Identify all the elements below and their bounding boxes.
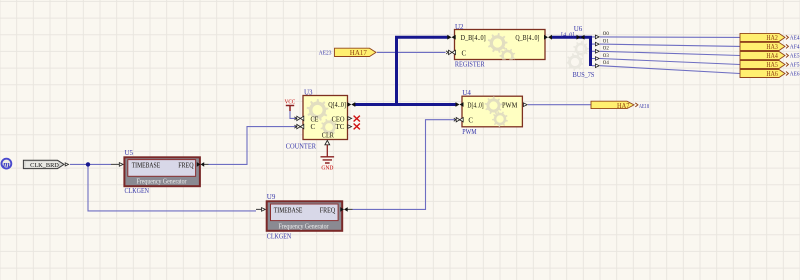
- pin U2 D_B input: [447, 35, 455, 40]
- no-ERC mark on TC: [354, 124, 360, 130]
- svg-text:VCC: VCC: [285, 99, 296, 106]
- svg-text:O1: O1: [603, 38, 609, 44]
- bus U2 Q_B to BUS_7S: [551, 37, 591, 66]
- component U4 PWM: [462, 96, 522, 127]
- junction node: [86, 162, 90, 166]
- svg-text:CLKGEN: CLKGEN: [125, 187, 150, 195]
- pin U9 FREQ output: [347, 208, 353, 210]
- component U6 BUS_7S bus ripper: [573, 41, 589, 57]
- svg-text:U9: U9: [267, 193, 276, 201]
- svg-text:U6: U6: [574, 25, 583, 33]
- pin O3 arrow: [595, 57, 599, 61]
- probe marker (blue circle): [2, 159, 12, 169]
- power port VCC: [285, 99, 296, 111]
- svg-text:TIMEBASE: TIMEBASE: [132, 162, 161, 170]
- svg-text:CLK_BRD: CLK_BRD: [30, 162, 59, 169]
- svg-text:AF4: AF4: [790, 45, 800, 51]
- svg-text:AF5: AF5: [790, 63, 800, 69]
- svg-text:HA5: HA5: [766, 61, 778, 69]
- pin U9 input stub: [256, 208, 262, 210]
- port HA17: [335, 48, 377, 56]
- svg-text:FREQ: FREQ: [178, 162, 193, 170]
- svg-text:HA6: HA6: [766, 70, 778, 78]
- svg-text:U4: U4: [462, 89, 471, 97]
- pin HA7 tail arrow: [635, 103, 638, 107]
- svg-text:Q_B[4..0]: Q_B[4..0]: [515, 34, 539, 42]
- pin U3 CE: [297, 116, 304, 120]
- svg-text:GND: GND: [321, 165, 333, 172]
- svg-text:O4: O4: [603, 60, 609, 66]
- pin O0 arrow: [595, 35, 599, 39]
- svg-text:C: C: [462, 50, 467, 58]
- svg-text:HA7: HA7: [617, 102, 630, 110]
- svg-text:U3: U3: [304, 88, 313, 96]
- wire U5 FREQ to U3 C: [209, 127, 297, 165]
- svg-text:AE23: AE23: [319, 51, 332, 57]
- wire CLK_BRD to U5 input: [70, 163, 111, 165]
- svg-text:Frequency Generator: Frequency Generator: [137, 177, 187, 185]
- port CLK_BRD: [23, 160, 64, 169]
- pin U3 Q output: [347, 102, 355, 107]
- wire O4 to port HA6: [592, 66, 740, 74]
- pin O2 arrow: [595, 50, 599, 54]
- pin HA6 tail arrow: [786, 72, 788, 76]
- pin O1 arrow: [595, 42, 599, 46]
- svg-text:AE5: AE5: [790, 54, 800, 60]
- svg-text:AE4: AE4: [790, 36, 800, 42]
- svg-text:U5: U5: [125, 149, 134, 157]
- pin U5 input stub: [111, 163, 119, 165]
- pin O4 arrow: [595, 64, 599, 68]
- svg-text:COUNTER: COUNTER: [286, 141, 316, 150]
- svg-text:U2: U2: [455, 23, 464, 31]
- pin HA2 tail arrow: [786, 35, 788, 39]
- wire U4 PWM to HA7: [528, 104, 591, 106]
- pin U4 C input: [456, 118, 463, 122]
- pin U5 FREQ output: [204, 163, 209, 165]
- svg-text:PWM: PWM: [502, 101, 518, 109]
- no-ERC mark on CEO: [354, 116, 360, 122]
- wire junction to U9 input: [88, 164, 256, 211]
- svg-text:HA2: HA2: [766, 34, 778, 42]
- svg-text:C: C: [468, 117, 473, 125]
- wire VCC to U3 CE: [290, 111, 297, 118]
- pin U3 CEO output: [348, 117, 352, 121]
- svg-text:O2: O2: [603, 46, 609, 52]
- svg-text:TC: TC: [336, 123, 345, 131]
- port HA5: [740, 61, 785, 69]
- svg-text:AE18: AE18: [639, 104, 649, 110]
- port HA7: [591, 101, 634, 108]
- pin HA4 tail arrow: [786, 54, 788, 58]
- svg-text:Frequency Generator: Frequency Generator: [279, 222, 329, 230]
- svg-text:FREQ: FREQ: [320, 206, 335, 214]
- svg-text:CLKGEN: CLKGEN: [267, 232, 292, 240]
- power port GND: [321, 145, 335, 172]
- svg-text:HA4: HA4: [766, 52, 778, 60]
- svg-text:HA17: HA17: [350, 49, 368, 57]
- wire O3 to port HA5: [592, 59, 740, 65]
- component U5 CLKGEN (frequency generator): [124, 157, 199, 186]
- svg-text:m: m: [3, 159, 10, 169]
- bus vertical riser to U2 D_B: [395, 37, 448, 104]
- pin U3 CLR (up arrow): [325, 140, 330, 144]
- svg-text:TIMEBASE: TIMEBASE: [274, 206, 303, 214]
- pin HA5 tail arrow: [786, 63, 788, 67]
- svg-text:D[4..0]: D[4..0]: [467, 101, 483, 109]
- svg-text:O3: O3: [603, 53, 609, 59]
- svg-text:O0: O0: [603, 31, 609, 37]
- pin U3 TC output: [348, 125, 352, 129]
- svg-text:BUS_7S: BUS_7S: [573, 71, 595, 79]
- svg-text:HA3: HA3: [766, 43, 778, 51]
- component U9 CLKGEN (frequency generator): [267, 201, 343, 231]
- component U2 REGISTER: [455, 30, 546, 65]
- svg-text:D_B[4..0]: D_B[4..0]: [461, 34, 486, 42]
- wire O0 to port HA2: [592, 36, 740, 39]
- component U3 COUNTER: [303, 96, 348, 140]
- pin U3 C: [297, 124, 304, 128]
- pin U2 Q_B output: [544, 35, 552, 40]
- wire O2 to port HA4: [592, 51, 740, 55]
- bus U3 Q to U4 D: [355, 103, 457, 106]
- wire U9 FREQ to U4 C: [353, 120, 457, 210]
- svg-text:C: C: [311, 123, 316, 131]
- pin HA3 tail arrow: [786, 44, 788, 48]
- pin CLK_BRD arrow: [65, 163, 68, 166]
- port HA4: [740, 52, 785, 60]
- port HA2: [740, 33, 785, 41]
- svg-text:PWM: PWM: [462, 127, 476, 136]
- pin BUS_7S bus input: [577, 35, 585, 40]
- wire HA17 to U2 C: [377, 51, 446, 53]
- svg-text:AE6: AE6: [790, 72, 800, 78]
- svg-text:REGISTER: REGISTER: [455, 59, 485, 68]
- wire O1 to port HA3: [592, 44, 740, 46]
- svg-text:CLR: CLR: [322, 131, 334, 139]
- pin U2 C input: [449, 50, 456, 54]
- pin U4 D input: [456, 102, 464, 107]
- port HA6: [740, 70, 785, 78]
- svg-text:[4..0]: [4..0]: [561, 31, 574, 38]
- port HA3: [740, 42, 785, 50]
- svg-text:Q[4..0]: Q[4..0]: [328, 101, 346, 109]
- pin U4 PWM output: [523, 103, 527, 107]
